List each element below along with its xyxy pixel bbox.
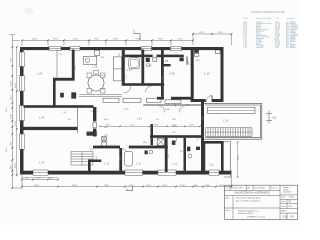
living room south glazing lines (79, 95, 122, 97)
stair steps (206, 128, 253, 137)
wall x183.5 vertical (184, 138, 187, 172)
room 1.10 door arc (206, 96, 212, 103)
bathtub (125, 152, 133, 167)
svg-text:2021/014 - DSP: 2021/014 - DSP (231, 187, 242, 189)
svg-text:2250: 2250 (202, 116, 204, 120)
svg-text:1.07: 1.07 (127, 68, 133, 72)
svg-text:T. Malý: T. Malý (289, 197, 294, 199)
title block texts (225, 186, 277, 189)
WC room fixtures (146, 58, 150, 62)
svg-text:1600: 1600 (94, 38, 100, 40)
interior wall: x161 vertical (161, 50, 164, 97)
svg-text:3900: 3900 (72, 185, 78, 187)
svg-text:MB: MB (289, 201, 291, 203)
svg-text:1870: 1870 (218, 32, 224, 34)
outer wall bottom (20, 171, 232, 175)
svg-text:1510: 1510 (53, 38, 59, 40)
right vertical dimension 1.15 (237, 142, 239, 177)
svg-text:1.10: 1.10 (204, 72, 210, 76)
scattered small dimension texts (62, 57, 200, 144)
bathtub room 1.07 (129, 58, 140, 69)
corridor internal dimension chain (100, 125, 200, 127)
fixture block right of closet (180, 58, 184, 62)
svg-text:05/21: 05/21 (289, 206, 293, 208)
window W-top1 (49, 46, 61, 50)
small stair lower left (71, 152, 93, 166)
svg-text:HALUPCZOKOVI × KOPŘIVNICE: HALUPCZOKOVI × KOPŘIVNICE (235, 192, 270, 195)
partition line x57 (56, 50, 58, 79)
top dimension numbers (32, 32, 224, 40)
chimney block (71, 92, 76, 98)
wardrobe right of living room (114, 57, 122, 81)
svg-text:parc. č. 1472/3, k.ú. Kopřivni: parc. č. 1472/3, k.ú. Kopřivnice (236, 200, 261, 202)
room labels (37, 59, 229, 167)
right small dimension marks (266, 111, 272, 124)
svg-text:1.15: 1.15 (209, 163, 215, 167)
svg-text:bet. dlažba: bet. dlažba (286, 46, 297, 49)
svg-text:číslo: číslo (243, 18, 248, 20)
wall x165 vertical (165, 137, 168, 173)
svg-text:1530: 1530 (219, 185, 225, 187)
north-ref mark bottom centre (126, 187, 133, 191)
svg-text:600: 600 (90, 149, 93, 151)
svg-text:900: 900 (180, 151, 183, 153)
interior wall: living room right x122 (122, 50, 125, 86)
window W-left2 (19, 76, 24, 91)
wall right of small stair (88, 160, 91, 173)
WC fixtures (172, 141, 200, 152)
svg-text:1.14: 1.14 (137, 117, 143, 121)
stair landing (208, 107, 256, 113)
svg-text:1365: 1365 (162, 76, 164, 80)
svg-text:1970: 1970 (101, 75, 107, 77)
svg-text:Zprac.: Zprac. (226, 210, 232, 212)
wall x201.5 vertical corridor east (201, 102, 204, 172)
outer boundary right of 1.15 (224, 142, 231, 178)
svg-text:LEGENDA MÍSTNOSTÍ 1.NP: LEGENDA MÍSTNOSTÍ 1.NP (251, 10, 285, 14)
window W-left1 (19, 52, 24, 67)
svg-text:VÝKRES Č. D.1.02: VÝKRES Č. D.1.02 (247, 216, 266, 219)
svg-text:+0,000: +0,000 (86, 132, 92, 134)
window W-top4 (170, 46, 181, 50)
svg-text:1300: 1300 (205, 185, 211, 187)
svg-text:zápraží: zápraží (256, 47, 263, 49)
interior wall: bathroom bottom y83.3 (122, 83, 164, 86)
wall pieces x96-99 corridor west (93, 107, 96, 113)
svg-text:2010: 2010 (84, 107, 90, 109)
svg-text:900: 900 (68, 119, 71, 121)
outer wall top (20, 47, 224, 50)
interior wall: living/1.05 divider vertical upper (72, 50, 75, 80)
svg-text:750: 750 (196, 139, 199, 141)
door arcs hall area (124, 86, 131, 93)
outer wall left (20, 47, 24, 175)
room 1.15 walls (203, 141, 224, 144)
svg-text:Dvořákova 1251/8: Dvořákova 1251/8 (238, 213, 253, 215)
svg-text:2110: 2110 (126, 75, 128, 79)
wall y145.5-148.5 middle (93, 146, 120, 149)
thin pavement line below bottom wall (22, 177, 58, 179)
dining table (88, 75, 104, 91)
left dimension chain (10, 35, 23, 189)
svg-text:1.04: 1.04 (39, 116, 45, 120)
window W-left4 (19, 134, 24, 149)
inner duct wall y54.6 (125, 55, 142, 58)
room 1.10 right wall (221, 47, 224, 102)
svg-text:1800: 1800 (129, 185, 135, 187)
svg-text:2600: 2600 (32, 38, 38, 40)
svg-text:1:50: 1:50 (283, 215, 288, 218)
svg-text:Akce: Akce (226, 196, 230, 199)
svg-text:1500: 1500 (146, 185, 152, 187)
section mark top middle (134, 34, 141, 41)
svg-text:-0,020: -0,020 (110, 145, 115, 147)
svg-text:900: 900 (119, 53, 121, 56)
svg-text:2250: 2250 (73, 38, 79, 40)
window W-top2 (70, 46, 80, 50)
window W-bot4 under room 1.15 (209, 170, 219, 175)
window W-bot1 (33, 170, 48, 175)
svg-text:Ing. Bednář: Ing. Bednář (283, 192, 292, 194)
interior wall: y99 horizontal under hall (157, 97, 164, 100)
svg-text:1.13: 1.13 (104, 162, 110, 166)
corridor north thin wall with doors (143, 104, 203, 105)
wall x150 short vertical (151, 124, 154, 145)
svg-text:2010: 2010 (120, 156, 122, 160)
interior wall: 1.05 vertical lower (53, 78, 56, 106)
entrance door arc left of room 1.10 (187, 57, 191, 66)
svg-text:1.09: 1.09 (169, 72, 175, 76)
svg-text:2110: 2110 (178, 38, 183, 40)
svg-text:1.08: 1.08 (163, 59, 169, 63)
svg-text:název místnosti: název místnosti (256, 17, 272, 20)
svg-text:1800: 1800 (158, 38, 164, 40)
shaft box with X (157, 139, 164, 146)
door arcs bottom rooms (121, 148, 128, 155)
radiator under hall (165, 100, 181, 104)
closet wall y64.5 (161, 64, 171, 66)
bottom dimension chain (22, 175, 232, 188)
chairs (87, 71, 105, 94)
faint scan smudge top-left (24, 8, 34, 14)
fixtures room 1.11 (145, 151, 148, 155)
svg-text:1900: 1900 (113, 38, 119, 40)
exterior stair structure outline (204, 103, 262, 139)
svg-text:1.05: 1.05 (37, 72, 43, 76)
svg-text:910: 910 (273, 117, 278, 120)
interior wall: 1.04/1.03 divider (24, 127, 78, 130)
svg-text:3620: 3620 (34, 185, 40, 187)
svg-text:1.11: 1.11 (136, 162, 142, 166)
svg-text:1.08: 1.08 (146, 64, 152, 68)
faint dimension specks (59, 53, 218, 160)
window W-bot3 (158, 170, 176, 175)
interior wall: vertical at x77 (77, 108, 79, 133)
svg-text:2425: 2425 (136, 38, 142, 40)
svg-text:1780: 1780 (162, 185, 168, 187)
svg-text:600: 600 (156, 119, 159, 121)
svg-text:1.03: 1.03 (39, 161, 45, 165)
wall y137 horizontal right cluster (150, 135, 203, 138)
svg-text:podlaha: podlaha (287, 18, 296, 20)
svg-text:Rekonstrukce rodinného domu: Rekonstrukce rodinného domu (236, 197, 260, 200)
svg-text:1.17: 1.17 (214, 132, 218, 134)
interior wall: 1.05 horizontal jog (53, 78, 75, 81)
room 1.10 top-right: left wall (191, 47, 194, 102)
top dimension chain (22, 34, 232, 46)
room 1.10 fixtures (194, 50, 199, 53)
svg-text:1450: 1450 (96, 156, 98, 160)
svg-text:1970: 1970 (75, 66, 77, 70)
svg-text:1.06: 1.06 (92, 65, 98, 69)
window W-left3 (19, 106, 24, 121)
window W-top3 (141, 46, 152, 50)
small dark block left (60, 93, 64, 98)
svg-text:Vedoucí: Vedoucí (283, 187, 289, 189)
svg-text:1970: 1970 (199, 32, 205, 34)
interior wall: 1.05/1.04 divider (24, 105, 94, 108)
room 1.10 bottom wall (191, 99, 206, 102)
svg-text:1800: 1800 (165, 109, 171, 111)
radiator row 2 (123, 98, 141, 102)
svg-text:2800: 2800 (104, 185, 110, 187)
radiator row 3 (147, 98, 162, 102)
svg-text:750: 750 (90, 111, 93, 113)
window W-bot2 (125, 170, 143, 175)
bottom dimension numbers (25, 178, 225, 187)
title block (225, 185, 298, 219)
svg-text:1700: 1700 (180, 185, 186, 187)
interior wall: x141.2 vertical (141, 50, 144, 86)
svg-text:2250: 2250 (124, 109, 130, 111)
svg-text:250: 250 (59, 54, 62, 56)
svg-text:Pare č. 2: Pare č. 2 (271, 187, 277, 189)
svg-text:1365: 1365 (168, 154, 170, 158)
radiator row 1 (103, 98, 119, 102)
svg-text:1.12: 1.12 (172, 162, 178, 166)
left dimension numbers (6, 57, 17, 170)
corridor door arcs (158, 106, 165, 113)
kitchen counter (83, 50, 99, 64)
svg-text:1.16: 1.16 (223, 119, 229, 123)
washing fixtures (102, 137, 107, 147)
wall x119.5 vertical (119, 148, 122, 172)
svg-text:m²: m² (276, 17, 279, 20)
wall segment above stair (87, 132, 97, 136)
svg-text:Kreslil: Kreslil (281, 197, 286, 199)
